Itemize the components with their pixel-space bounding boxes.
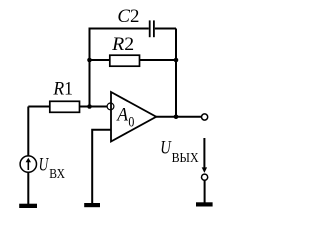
svg-text:C2: C2 bbox=[117, 6, 139, 27]
svg-text:R2: R2 bbox=[111, 34, 134, 55]
svg-text:ВЫХ: ВЫХ bbox=[172, 151, 199, 166]
svg-text:U: U bbox=[39, 155, 49, 176]
svg-text:U: U bbox=[160, 137, 172, 158]
svg-text:R1: R1 bbox=[52, 78, 73, 99]
svg-text:A: A bbox=[115, 104, 128, 125]
svg-text:ВХ: ВХ bbox=[49, 167, 65, 182]
svg-text:0: 0 bbox=[128, 115, 134, 131]
